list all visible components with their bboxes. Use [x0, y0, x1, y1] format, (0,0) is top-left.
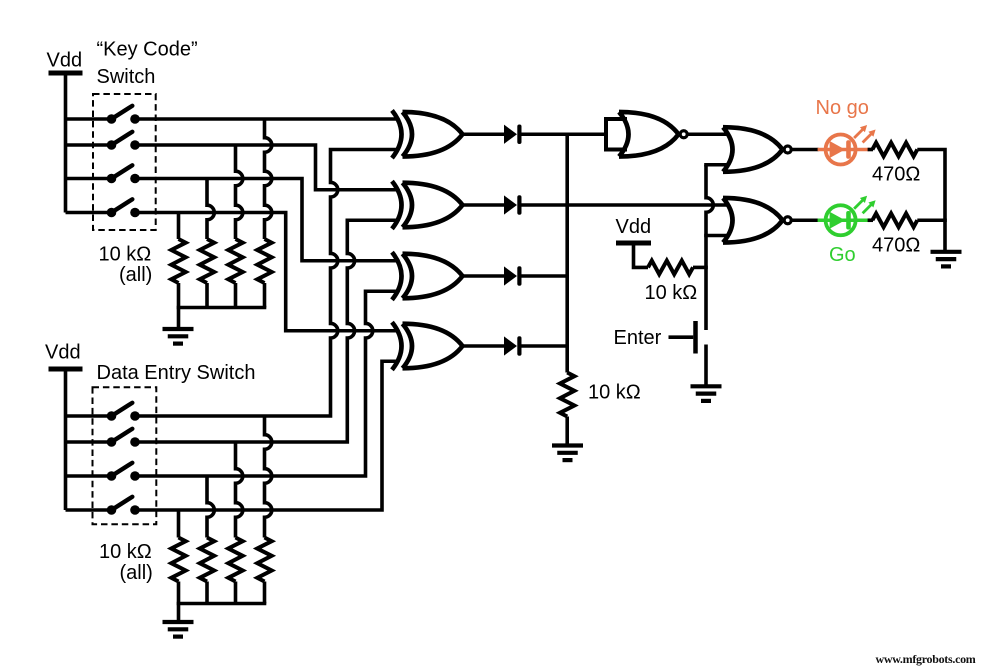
dashed box around key code switches	[93, 94, 156, 230]
resistor R7 10 k&#937; (data pulldown)	[200, 538, 214, 582]
wire resistor to ground rail (top)	[917, 150, 945, 252]
wire resistor R3 to common	[205, 283, 209, 308]
wire resistor to ground rail (bottom)	[917, 218, 947, 222]
wire D4 to OR bus	[518, 344, 568, 348]
svg-text:Switch: Switch	[97, 66, 156, 88]
wire S6 to XOR2 input B	[135, 220, 398, 442]
svg-text:“Key Code”: “Key Code”	[97, 39, 198, 61]
wire resistor R6 to common	[234, 582, 238, 604]
diode D2	[504, 195, 522, 215]
NOR gate U2B (No go driver)	[723, 127, 791, 172]
svg-text:470Ω: 470Ω	[872, 235, 920, 257]
wire key line to resistor R1	[265, 119, 272, 239]
wire S5 to XOR1 input B	[135, 150, 398, 417]
svg-text:Vdd: Vdd	[45, 342, 81, 364]
svg-text:10 kΩ: 10 kΩ	[645, 282, 698, 304]
wire XOR3 output to diode D3	[462, 274, 505, 278]
resistor R6 10 k&#937; (data pulldown)	[228, 538, 242, 582]
XOR gate U1D	[392, 322, 463, 370]
switch S2 (key code bit 2)	[107, 132, 140, 150]
wire XOR2 output to diode D2	[462, 203, 505, 207]
resistor 10 k&#937; (enter pull-up)	[648, 261, 693, 275]
svg-text:www.mfgrobots.com: www.mfgrobots.com	[876, 652, 976, 666]
wire S7 to XOR3 input B	[135, 291, 398, 476]
wire Vdd stem (key code)	[64, 71, 68, 213]
wire Vdd to switch S5	[66, 414, 112, 418]
diode D4	[504, 336, 522, 356]
wire D1 to inverter input / OR bus	[518, 132, 607, 136]
node E: enter line (hops over W line)	[706, 165, 713, 330]
Vdd supply rail (key code switches)	[49, 71, 83, 76]
wire resistor R7 to common	[205, 582, 209, 604]
wire resistor R4 to common	[177, 283, 181, 308]
diode D1	[504, 124, 522, 144]
wire XOR4 output to diode D4	[462, 344, 505, 348]
wire S4 to XOR4 input A	[135, 213, 398, 331]
resistor R4 10 k&#937; (key pulldown)	[171, 239, 185, 283]
wire data pulldown common bus	[177, 602, 267, 606]
input tie bracket of U2A	[604, 117, 627, 152]
switch S6 (data entry bit 2)	[107, 429, 140, 447]
NOR gate U2C (Go driver)	[723, 198, 791, 243]
wire S3 to XOR3 input A	[135, 179, 398, 261]
switch S3 (key code bit 3)	[107, 165, 140, 183]
svg-text:(all): (all)	[119, 264, 152, 286]
wire enter button to ground	[704, 345, 708, 387]
resistor R5 10 k&#937; (data pulldown)	[257, 538, 271, 582]
ground (LED return)	[931, 252, 962, 267]
wire Vdd to switch S4	[66, 211, 112, 215]
resistor R8 10 k&#937; (data pulldown)	[171, 538, 185, 582]
NOR gate U2A (inverter)	[619, 112, 687, 157]
svg-text:10 kΩ: 10 kΩ	[99, 244, 152, 266]
wire LED2 to resistor	[868, 218, 873, 222]
wire Vdd to switch S1	[66, 117, 112, 121]
XOR gate U1A	[392, 110, 463, 158]
wire Vdd to switch S3	[66, 177, 112, 181]
wire S1 to XOR1 input A	[135, 117, 398, 121]
wire resistor R1 to common	[263, 283, 267, 308]
wire U2B input B stub	[704, 163, 727, 167]
Vdd supply rail (enter pull-up)	[616, 241, 651, 246]
wire Vdd to switch S2	[66, 143, 112, 147]
wire Vdd to switch S6	[66, 440, 112, 444]
pushbutton Enter actuator bar	[693, 321, 698, 354]
wire Vdd to switch S8	[66, 508, 112, 512]
svg-text:470Ω: 470Ω	[872, 164, 920, 186]
wire data line to resistor R7	[207, 476, 214, 538]
svg-text:Data Entry Switch: Data Entry Switch	[97, 362, 256, 384]
ground (bus pulldown)	[552, 446, 583, 461]
wire common to ground (data)	[177, 604, 181, 623]
wire D2 to NOR U2C input A (through OR bus)	[518, 203, 728, 207]
svg-text:10 kΩ: 10 kΩ	[588, 382, 641, 404]
wire Enter label to button	[669, 335, 694, 339]
wire U2B output to LED1	[793, 148, 819, 152]
wire Vdd stem (data entry)	[64, 367, 68, 511]
svg-text:10 kΩ: 10 kΩ	[99, 541, 152, 563]
resistor R2 10 k&#937; (key pulldown)	[228, 239, 242, 283]
wire Vdd to switch S7	[66, 474, 112, 478]
resistor R3 10 k&#937; (key pulldown)	[200, 239, 214, 283]
ground (data pulldowns)	[163, 622, 194, 637]
resistor 10 k&#937; (bus pulldown)	[560, 373, 574, 417]
wire U2C output to LED2	[793, 218, 819, 222]
XOR gate U1C	[392, 252, 463, 300]
wire XOR1 output to diode D1	[462, 132, 505, 136]
wire key line to resistor R2	[236, 145, 243, 239]
wire LED1 to resistor	[868, 148, 873, 152]
wire key pulldown common bus	[177, 306, 267, 310]
ground (enter button)	[691, 386, 722, 401]
wire resistor R5 to common	[263, 582, 267, 604]
Vdd supply rail (data entry switches)	[49, 367, 83, 372]
wire pull-up resistor to node E	[693, 266, 708, 270]
wire resistor R2 to common	[234, 283, 238, 308]
wire data line to resistor R8	[177, 510, 181, 538]
wire data line to resistor R5	[265, 416, 272, 538]
wire S2 to XOR2 input A	[135, 145, 398, 190]
switch S5 (data entry bit 1)	[107, 403, 140, 421]
wire common to ground (key)	[177, 308, 181, 330]
wire key line to resistor R3	[207, 179, 214, 240]
wire bus resistor to ground	[565, 417, 569, 446]
svg-text:Vdd: Vdd	[47, 50, 83, 72]
switch S8 (data entry bit 4)	[107, 497, 140, 515]
wire key line to resistor R4	[177, 213, 181, 240]
resistor R1 10 k&#937; (key pulldown)	[257, 239, 271, 283]
svg-text:No go: No go	[816, 97, 869, 119]
node W: wired-OR bus	[565, 134, 569, 372]
wire resistor R8 to common	[177, 582, 181, 604]
svg-text:Go: Go	[829, 244, 856, 266]
wire D3 to OR bus	[518, 274, 568, 278]
svg-text:Enter: Enter	[614, 327, 662, 349]
wire S8 to XOR4 input B	[135, 361, 398, 510]
LED2 Go (green)	[818, 196, 876, 236]
switch S1 (key code bit 1)	[107, 106, 140, 124]
wire U2C input B stub	[704, 234, 727, 238]
wire data line to resistor R6	[236, 442, 243, 538]
XOR gate U1B	[392, 181, 463, 229]
resistor 470 &#937; (Go)	[872, 213, 917, 227]
svg-text:Vdd: Vdd	[616, 216, 652, 238]
LED1 No go (orange)	[818, 125, 876, 165]
ground (key pulldowns)	[163, 329, 194, 344]
resistor 470 &#937; (No go)	[872, 143, 917, 157]
diode D3	[504, 266, 522, 286]
dashed box around data entry switches	[93, 387, 157, 524]
wire Vdd stem to resistor	[634, 241, 649, 268]
svg-text:(all): (all)	[120, 562, 153, 584]
switch S7 (data entry bit 3)	[107, 463, 140, 481]
wire U2A output to NOR U2B input A	[689, 132, 728, 136]
switch S4 (key code bit 4)	[107, 199, 140, 217]
